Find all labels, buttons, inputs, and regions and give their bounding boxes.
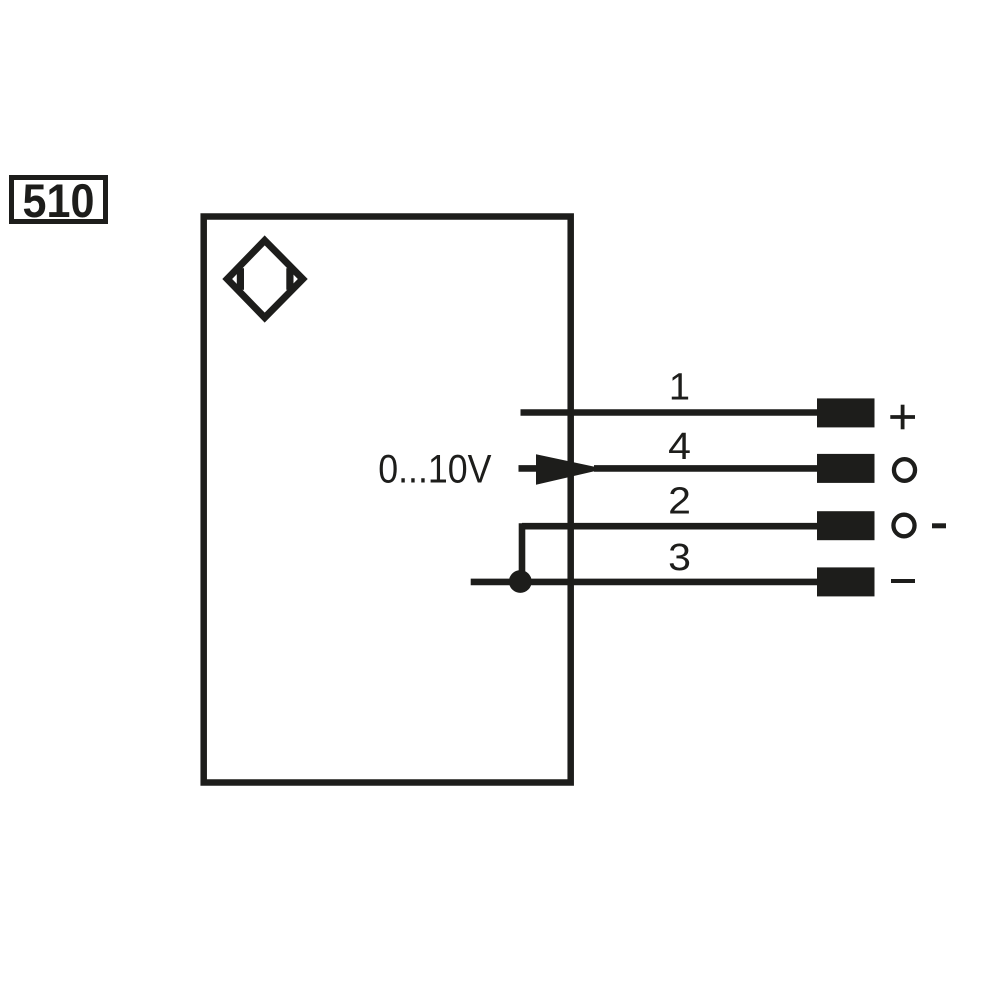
terminal 3 [817,567,875,596]
terminal 2 [817,511,875,540]
svg-text:1: 1 [669,367,690,409]
svg-text:4: 4 [668,425,691,467]
figure number box 510 [12,174,106,227]
svg-text:510: 510 [23,174,95,227]
svg-text:0...10V: 0...10V [378,448,492,492]
wire 3 [471,579,818,586]
output O minus label [893,515,946,537]
analog output arrow head [536,454,605,485]
wire 1 [521,409,819,416]
terminal 1 [817,398,875,427]
wire 4 [594,465,818,472]
sensor body outline [204,217,571,783]
output O label [894,459,915,481]
plus label [890,405,915,430]
svg-text:2: 2 [668,480,691,522]
terminal 4 [817,454,875,483]
analog output arrow stub [519,465,539,472]
wire 2 vertical drop [519,523,526,582]
inductive sensor symbol (diamond with bars) [227,240,303,317]
wire 2 [522,523,818,530]
svg-text:3: 3 [668,536,691,578]
junction dot [509,570,532,593]
minus label [891,579,915,583]
